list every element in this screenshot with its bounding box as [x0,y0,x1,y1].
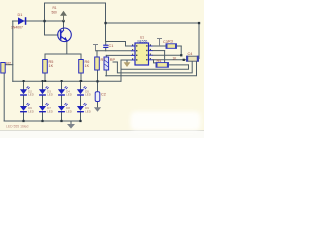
svg-text:LED 555 16led: LED 555 16led [6,125,29,129]
svg-text:LED: LED [85,93,92,97]
svg-text:C1: C1 [109,44,114,48]
svg-text:R2: R2 [6,62,11,66]
svg-text:LED: LED [28,93,35,97]
svg-text:R1: R1 [53,6,57,10]
svg-text:LED: LED [66,93,73,97]
svg-text:1K: 1K [85,64,90,68]
svg-text:1K: 1K [49,64,54,68]
svg-text:LED: LED [47,93,54,97]
svg-text:LED: LED [66,109,73,113]
svg-text:RP: RP [110,58,116,62]
svg-text:C4: C4 [188,52,193,56]
svg-text:R4: R4 [157,59,162,63]
svg-text:560: 560 [52,11,58,15]
svg-text:NE555: NE555 [138,40,148,44]
svg-text:1N4007: 1N4007 [11,26,23,30]
svg-text:LED: LED [28,109,35,113]
svg-text:C2: C2 [101,93,106,97]
svg-text:D1: D1 [18,13,23,17]
svg-text:LED: LED [47,109,54,113]
svg-text:R7: R7 [101,58,106,62]
svg-text:LED: LED [85,109,92,113]
svg-text:R3: R3 [168,40,173,44]
